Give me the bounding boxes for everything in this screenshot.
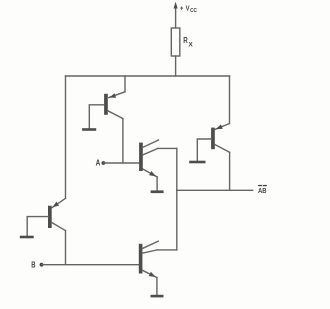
transistor Q5 (npn, bottom, two collectors) xyxy=(139,241,159,295)
svg-text:CC: CC xyxy=(190,8,197,14)
transistor Q3 (pnp injector, bottom left) xyxy=(27,198,65,236)
node A input dot xyxy=(102,161,106,165)
resistor RX xyxy=(171,28,180,76)
wire Q2 collector to output xyxy=(229,152,231,190)
wire VCC injector rail xyxy=(66,75,230,77)
wire Q3 collector to node B xyxy=(65,231,67,265)
ground (Q5 emitter) xyxy=(151,295,164,298)
ground (Q2 base) xyxy=(189,161,205,164)
svg-text:AB: AB xyxy=(258,186,267,195)
ground (Q3 base) xyxy=(20,236,34,239)
svg-text:+: + xyxy=(180,6,183,13)
wire Q1 injector stub xyxy=(124,76,126,92)
transistor Q4 (npn, middle, two collectors) xyxy=(139,140,158,190)
ground (Q1 base) xyxy=(82,128,96,131)
wire node B to Q5 base xyxy=(42,264,139,266)
+VCC label xyxy=(180,6,197,14)
+VCC supply arrow xyxy=(174,2,178,28)
wire Q5 collector horizontal xyxy=(157,249,177,251)
svg-text:B: B xyxy=(31,260,35,269)
svg-text:X: X xyxy=(189,41,194,48)
ground (Q4 emitter) xyxy=(151,190,164,193)
label output A-bar B-bar xyxy=(258,185,267,195)
wire output line xyxy=(177,189,253,191)
node B input dot xyxy=(40,263,44,267)
wire collector bus vertical xyxy=(176,148,178,250)
wire right injector drop xyxy=(229,76,231,124)
resistor RX value label xyxy=(183,36,193,48)
wire Q1 collector to node A xyxy=(122,119,124,163)
transistor Q2 (pnp injector, right) xyxy=(197,124,229,161)
wire node A to Q4 base xyxy=(103,162,139,164)
wire left injector drop xyxy=(65,76,67,198)
svg-text:R: R xyxy=(183,36,188,45)
wire Q4 collector horizontal xyxy=(158,147,177,149)
svg-text:A: A xyxy=(96,158,101,167)
transistor Q1 (pnp injector, top left) xyxy=(89,92,125,129)
